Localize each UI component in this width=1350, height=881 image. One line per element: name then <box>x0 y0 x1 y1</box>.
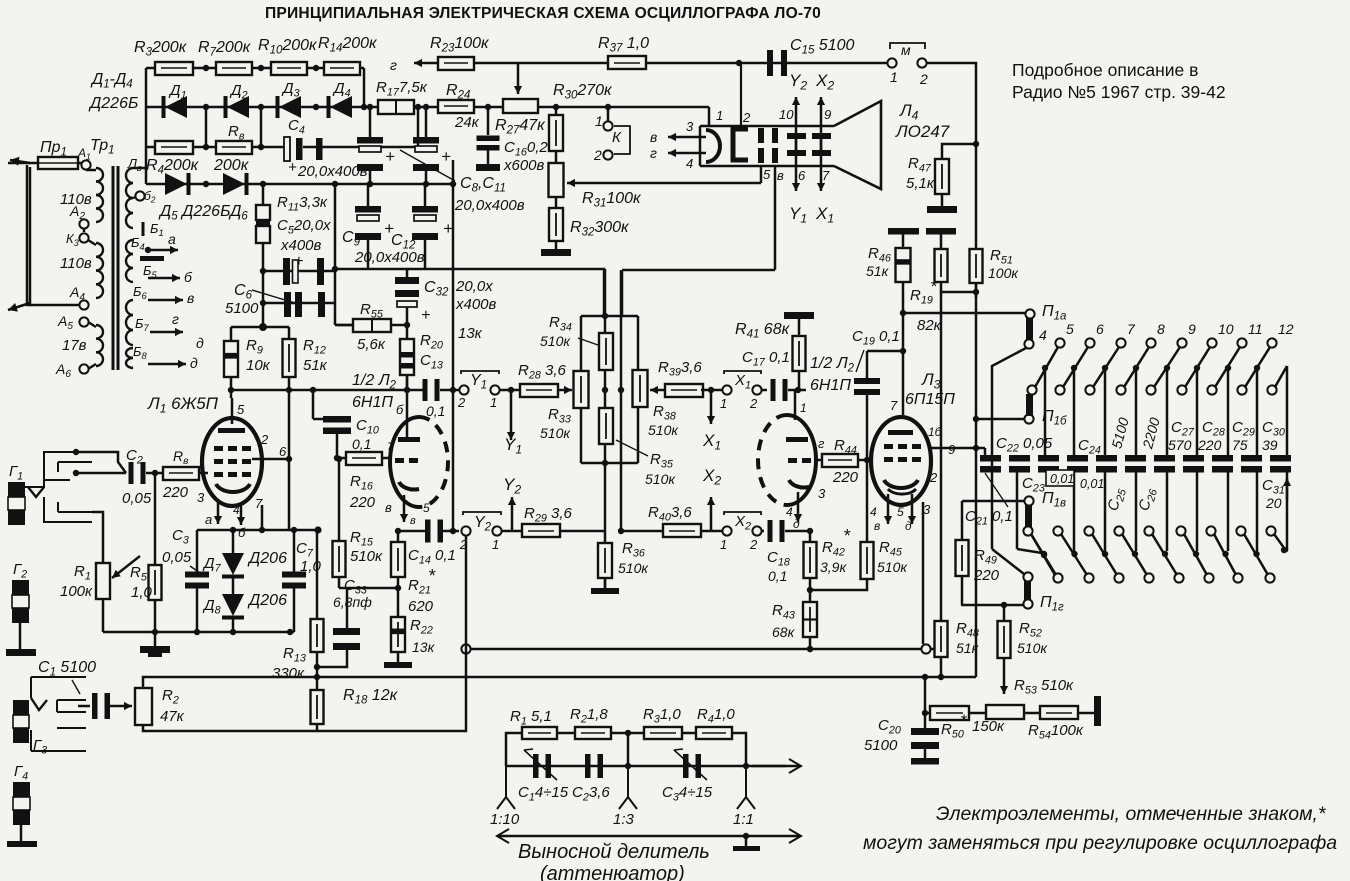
node net top <box>602 313 608 319</box>
svg-text:в: в <box>777 168 784 183</box>
resistor R10 <box>271 62 307 75</box>
connector G1 <box>8 482 25 497</box>
svg-text:47к: 47к <box>160 708 185 725</box>
ground R47 <box>927 206 957 213</box>
capacitor C16 <box>477 136 500 142</box>
node low diag 3 <box>1132 551 1138 557</box>
terminal wiper u7 <box>1237 385 1246 394</box>
node low diag 6 <box>1222 551 1228 557</box>
capacitor C4 <box>284 137 290 161</box>
node low diag 2 <box>1102 551 1108 557</box>
resistor R52 <box>998 621 1011 658</box>
wire sw low col 3 <box>1166 472 1169 551</box>
wire C21 pointer <box>985 473 1008 507</box>
resistor R4 <box>155 141 193 154</box>
arrow L1 heater b <box>240 503 243 525</box>
svg-text:2: 2 <box>749 396 758 411</box>
svg-text:10: 10 <box>1218 321 1234 337</box>
node attn gnd <box>743 833 749 839</box>
wire C20 gnd stem <box>924 749 927 758</box>
tube L2 right half <box>787 415 816 505</box>
resistor R39 <box>665 384 703 397</box>
arrow X2 up <box>710 497 713 531</box>
terminal Y1-2 <box>459 385 468 394</box>
wire attn top rail <box>506 733 522 766</box>
wire x335 R55 <box>335 324 353 327</box>
node y677 941 <box>938 674 944 680</box>
terminal wiper u4 <box>1146 385 1155 394</box>
wire Y2 down to attn <box>465 536 468 645</box>
wire R9 bottom <box>230 377 233 398</box>
wire R44 out <box>858 459 867 462</box>
node y107 418 <box>415 104 421 110</box>
terminal lowA 5 <box>1176 526 1185 535</box>
terminal A4 <box>79 300 88 309</box>
terminal X2-1 <box>722 526 731 535</box>
svg-text:5: 5 <box>237 402 245 417</box>
wire G4 stem <box>20 825 23 841</box>
wire C11 bot <box>425 171 428 184</box>
wire C13 to Y1 <box>440 389 459 392</box>
node C20 top <box>922 710 928 716</box>
svg-text:20,0х400в: 20,0х400в <box>454 197 525 214</box>
svg-text:б: б <box>238 525 246 540</box>
svg-text:1: 1 <box>492 537 499 552</box>
terminal wiper u3 <box>1116 385 1125 394</box>
svg-text:510к: 510к <box>877 559 908 575</box>
wire c2 to r8b <box>146 472 163 475</box>
wire C3 pointer <box>190 566 200 573</box>
svg-text:1,0: 1,0 <box>300 558 322 575</box>
node sw col 7 <box>1254 365 1260 371</box>
wire R20 bottom <box>406 376 409 390</box>
wire trunk 292-606 <box>975 292 978 606</box>
svg-text:в: в <box>385 500 392 515</box>
wire Y1 to R28 <box>500 389 520 392</box>
wire c35 stub <box>940 234 943 249</box>
wire A2 <box>83 228 86 232</box>
terminal Y1-1 <box>490 385 499 394</box>
wire L1 pin6 out <box>252 458 289 461</box>
svg-text:+: + <box>443 219 453 238</box>
svg-text:4: 4 <box>686 156 693 171</box>
wire R47 gnd <box>941 194 944 206</box>
wire net mid x621 <box>620 270 623 531</box>
wire x313 tap <box>312 390 315 419</box>
wire R40 left <box>621 530 663 533</box>
capacitor C8 <box>357 137 383 144</box>
wire trunk to y680 <box>975 606 978 677</box>
tube L1 cathode <box>216 484 250 492</box>
svg-text:б: б <box>184 269 193 285</box>
svg-text:510к: 510к <box>618 560 649 576</box>
ground R32 <box>541 249 571 256</box>
svg-text:Радио №5 1967 стр. 39-42: Радио №5 1967 стр. 39-42 <box>1012 82 1226 102</box>
resistor R5 <box>149 565 162 600</box>
arrow L2b cathode pin <box>797 492 800 522</box>
terminal lowB 5 <box>1204 573 1213 582</box>
wire C19 up <box>866 351 869 378</box>
capacitor row top plates C21-C30 <box>980 455 1001 462</box>
resistor R44 <box>822 454 858 467</box>
terminal Y2-1 <box>492 526 501 535</box>
ground main left <box>140 646 170 653</box>
svg-text:г: г <box>390 57 397 73</box>
node attn mid <box>625 730 631 736</box>
resistor R35 <box>599 408 613 444</box>
arrow g out <box>414 62 437 65</box>
svg-text:2: 2 <box>742 110 751 125</box>
svg-text:0,1: 0,1 <box>352 436 371 452</box>
svg-text:4: 4 <box>786 505 793 519</box>
wire sw col 1 <box>1073 368 1076 455</box>
svg-text:Выносной делитель: Выносной делитель <box>518 841 710 863</box>
resistor R36 <box>598 543 612 578</box>
terminal A1 <box>81 160 90 169</box>
capacitor C6b <box>284 292 291 317</box>
wire R12 bottom <box>288 377 291 530</box>
wire sw diag 5 <box>1185 347 1210 387</box>
tap B1 <box>142 222 145 236</box>
capacitor C11 bottom plate <box>413 164 439 171</box>
wire attn mid link <box>627 733 630 766</box>
boxed 0,01 <box>1046 470 1074 486</box>
wire R1 bottom <box>102 599 105 632</box>
wire attn r2-node <box>611 732 644 735</box>
terminal b2 <box>135 191 144 200</box>
svg-text:6П15П: 6П15П <box>905 391 955 408</box>
capacitor attn C3 <box>683 754 689 778</box>
svg-text:17в: 17в <box>62 337 87 354</box>
wire L3 pin3 down <box>922 502 925 644</box>
bracket X1 <box>724 371 761 374</box>
resistor R14 <box>324 62 360 75</box>
node y530 318 <box>314 526 321 533</box>
winding primary upper 110v <box>96 168 103 182</box>
wire g1 top to c2 <box>76 452 126 473</box>
wire crt feed down <box>708 107 711 126</box>
wire sw col 8 <box>1286 366 1289 455</box>
wire mains left top <box>8 162 80 165</box>
node y530 233 <box>230 527 236 533</box>
svg-text:(аттенюатор): (аттенюатор) <box>540 863 685 881</box>
capacitor C15 <box>767 50 773 76</box>
wire C12 bot <box>424 240 427 269</box>
CRT grid <box>733 129 748 160</box>
wire r8b to tube <box>199 472 208 475</box>
ground R22 <box>384 662 412 668</box>
svg-text:11: 11 <box>1248 321 1263 337</box>
resistor R38 <box>633 370 648 407</box>
wire g3 to c1 <box>78 705 90 708</box>
svg-text:6: 6 <box>279 444 287 459</box>
node low diag 5 <box>1193 551 1199 557</box>
node R10-R14 <box>313 65 319 71</box>
wire R30 link <box>555 107 558 115</box>
node y390 511 <box>508 387 514 393</box>
CRT plate X2 <box>812 133 831 139</box>
node D5-D6 <box>203 181 209 187</box>
terminal K2 <box>603 150 612 159</box>
node sw col 4 <box>1164 365 1170 371</box>
node R4-R8 <box>203 144 209 150</box>
terminal contact 10 <box>1207 338 1216 347</box>
wire bus y390 <box>231 389 425 392</box>
wire R55 right <box>391 324 407 327</box>
svg-text:10: 10 <box>779 107 794 122</box>
capacitor C1 <box>92 693 98 719</box>
wire L3 pin7 <box>902 351 905 418</box>
wire R15 bottom <box>338 577 341 588</box>
resistor R45 <box>861 542 874 579</box>
wire R52 top <box>1003 605 1006 621</box>
svg-text:в: в <box>874 519 880 533</box>
wire sw col 0 <box>1044 368 1047 455</box>
terminal wiper u8 <box>1267 385 1276 394</box>
probe plug G1 <box>25 452 92 522</box>
resistor R24 <box>438 100 474 113</box>
resistor R11 <box>256 205 270 220</box>
svg-text:С3​4÷15: С3​4÷15 <box>662 784 713 803</box>
svg-text:1,0: 1,0 <box>131 584 153 601</box>
svg-text:ЛО247: ЛО247 <box>895 122 950 141</box>
svg-text:х600в: х600в <box>503 157 545 174</box>
terminal A5 <box>79 317 88 326</box>
terminal P1b <box>1024 414 1033 423</box>
capacitor C33 <box>333 628 360 635</box>
svg-text:0,01: 0,01 <box>1050 472 1074 486</box>
tube L3 grid2 <box>884 457 893 462</box>
arrow mains top <box>10 160 30 163</box>
svg-text:51к: 51к <box>303 357 328 374</box>
svg-text:1:3: 1:3 <box>613 811 635 828</box>
node R3-R7 <box>203 65 209 71</box>
terminal lowA 0 <box>1023 526 1032 535</box>
svg-text:1: 1 <box>716 108 723 123</box>
node K stem <box>605 104 611 110</box>
svg-text:2: 2 <box>593 147 602 163</box>
terminal wiper u1 <box>1055 385 1064 394</box>
wire low diag 0 <box>1031 534 1056 575</box>
terminal contact 11 <box>1237 338 1246 347</box>
node C8 out <box>367 181 373 187</box>
svg-text:5: 5 <box>1066 321 1074 337</box>
node D1-D2 <box>203 104 209 110</box>
terminal contact 8 <box>1146 338 1155 347</box>
svg-text:5,1к: 5,1к <box>906 175 935 192</box>
wire diode bus y107 <box>146 106 709 109</box>
svg-text:R54​100к: R54​100к <box>1028 722 1084 741</box>
wire R43 top <box>809 590 812 602</box>
wire bus y530 <box>197 529 318 532</box>
svg-text:R17​7,5к: R17​7,5к <box>376 79 428 98</box>
node bus184 335 <box>332 181 338 187</box>
wire sw diag 1 <box>1063 347 1088 387</box>
node R51 292 <box>973 289 979 295</box>
svg-text:24к: 24к <box>454 114 480 131</box>
wire R5 bottom <box>154 600 157 632</box>
terminal wiper u5 <box>1177 385 1186 394</box>
wire low diag 5 <box>1184 534 1207 575</box>
tube L1 anode <box>218 428 245 433</box>
node y632 197 <box>194 629 200 635</box>
wire C18 out <box>785 530 810 533</box>
arrow heater v <box>668 136 706 139</box>
svg-text:R10​200к: R10​200к <box>258 37 318 57</box>
wire R20 top <box>406 325 409 339</box>
bracket X2 <box>724 512 761 515</box>
svg-text:13к: 13к <box>412 639 436 655</box>
svg-text:5,6к: 5,6к <box>357 336 386 353</box>
node sw col 5 <box>1194 365 1200 371</box>
wire P1g wiper <box>992 549 1024 574</box>
wire R36 gnd <box>604 577 607 588</box>
wire R30-R31 <box>555 151 558 163</box>
svg-text:г: г <box>818 436 825 451</box>
wire X2 to C18 <box>762 530 764 533</box>
wire P1g out <box>961 604 1023 607</box>
resistor R51 <box>970 249 983 283</box>
wire R31 long <box>598 182 761 185</box>
diode D6 <box>223 173 245 195</box>
svg-text:200к: 200к <box>213 157 250 174</box>
svg-text:7: 7 <box>890 398 898 413</box>
wire cap row left drop <box>984 448 987 455</box>
wire C33 bottom <box>317 650 347 667</box>
wire sw low left <box>1016 472 1019 549</box>
capacitor C18 <box>768 520 773 542</box>
wire attn right rail <box>732 733 746 766</box>
svg-text:в: в <box>650 129 657 145</box>
wire sw low col 7 <box>1286 472 1289 551</box>
wire R12 top <box>288 327 291 339</box>
attn resistor R3 1,0 <box>644 727 682 739</box>
node y390 453 <box>450 387 456 393</box>
terminal lowB 7 <box>1265 573 1274 582</box>
resistor R41 <box>793 336 806 371</box>
resistor R32 <box>549 208 563 241</box>
node sw col 6 <box>1225 365 1231 371</box>
svg-text:2: 2 <box>260 432 269 447</box>
svg-text:R4​1,0: R4​1,0 <box>697 706 735 725</box>
wire left rail <box>145 68 148 184</box>
node D2-D3 <box>258 104 264 110</box>
resistor R20 <box>400 339 414 375</box>
wire net bottom rail <box>581 462 638 465</box>
svg-text:г: г <box>650 145 657 161</box>
wire C14 to Y2 <box>443 530 459 533</box>
wire attn r1-r2 <box>557 732 575 735</box>
resistor R17 <box>378 100 414 114</box>
wire sw diag last <box>1275 366 1287 387</box>
wire P1v wiper diag <box>1031 534 1055 575</box>
wire C8 top <box>369 107 372 137</box>
attn resistor R4 1,0 <box>696 727 732 739</box>
wire X1 wire <box>701 389 722 392</box>
wire L3 pin9 out <box>930 447 985 450</box>
wire crt neck outline <box>700 125 834 128</box>
wire R29 out <box>560 530 605 533</box>
svg-text:6: 6 <box>1096 321 1104 337</box>
wire R47 top <box>942 144 976 159</box>
svg-text:0,05: 0,05 <box>162 549 192 566</box>
resistor R43 <box>803 602 817 637</box>
resistor R19 <box>935 249 948 282</box>
terminal P1v <box>1024 496 1033 505</box>
wire gnd stem <box>154 632 157 646</box>
svg-text:1: 1 <box>800 401 807 415</box>
connector G3 <box>13 700 29 715</box>
node anode L1 <box>228 387 234 393</box>
wire C11 top <box>425 107 428 137</box>
wire b2 <box>133 197 136 198</box>
svg-text:R11​3,3к: R11​3,3к <box>277 194 328 213</box>
wire attn C1 trim hook <box>524 749 533 750</box>
capacitor C12 bottom plate <box>412 233 438 240</box>
resistor R53 <box>986 705 1024 719</box>
terminal contact 9 <box>1177 338 1186 347</box>
resistor R49 <box>956 540 969 576</box>
capacitor C20 <box>911 728 939 735</box>
wire C9 bot <box>367 240 370 269</box>
svg-text:1: 1 <box>595 113 603 129</box>
resistor R16 <box>346 452 382 465</box>
node C8 bus <box>367 104 373 110</box>
wire sw low col 4 <box>1196 472 1199 551</box>
diode D4 <box>330 96 352 118</box>
svg-text:570: 570 <box>1168 437 1192 453</box>
wire y588 <box>339 587 398 590</box>
wire bus y531 <box>398 530 425 533</box>
wire R18 bottom <box>316 724 319 731</box>
wire D7-D8 <box>232 575 235 594</box>
arrow X1 down <box>710 392 713 424</box>
capacitor C3 <box>185 572 209 578</box>
wire L1 pin7 down <box>261 505 264 530</box>
arrow R1 wiper <box>112 556 140 578</box>
svg-text:620: 620 <box>408 598 434 615</box>
svg-text:Д206: Д206 <box>247 592 287 609</box>
arrow L1 heater a <box>217 500 220 524</box>
connector G2 <box>12 580 29 595</box>
svg-text:10к: 10к <box>246 357 271 374</box>
wire rail y327 <box>231 326 289 329</box>
svg-text:R53​ 510к: R53​ 510к <box>1014 677 1074 696</box>
tube L3 6P15P <box>871 417 931 505</box>
capacitor attn C1 <box>533 754 539 778</box>
tube L3 grid1 <box>884 444 893 449</box>
svg-text:+: + <box>385 147 395 166</box>
wire R21-R22 <box>397 577 400 617</box>
probe plug G3 <box>31 677 86 751</box>
capacitor C11 <box>413 137 439 144</box>
node 263-303 <box>260 300 266 306</box>
node low diag 1 <box>1071 551 1077 557</box>
svg-text:220: 220 <box>162 484 189 501</box>
wire R22 gnd <box>397 652 400 662</box>
terminal lowA 1 <box>1053 526 1062 535</box>
node R13 bot <box>314 664 320 670</box>
node g1 a <box>73 449 79 455</box>
svg-text:д: д <box>196 335 204 351</box>
wire C10 left <box>313 418 337 421</box>
wire low diag 3 <box>1122 534 1147 575</box>
wire R41 bottom <box>798 371 801 390</box>
node c10-r16 <box>334 455 340 461</box>
wire to R11 <box>262 184 265 205</box>
wire r2 top <box>143 677 976 688</box>
svg-text:ПРИНЦИПИАЛЬНАЯ ЭЛЕКТРИЧЕСКАЯ С: ПРИНЦИПИАЛЬНАЯ ЭЛЕКТРИЧЕСКАЯ СХЕМА ОСЦИЛ… <box>265 5 821 22</box>
